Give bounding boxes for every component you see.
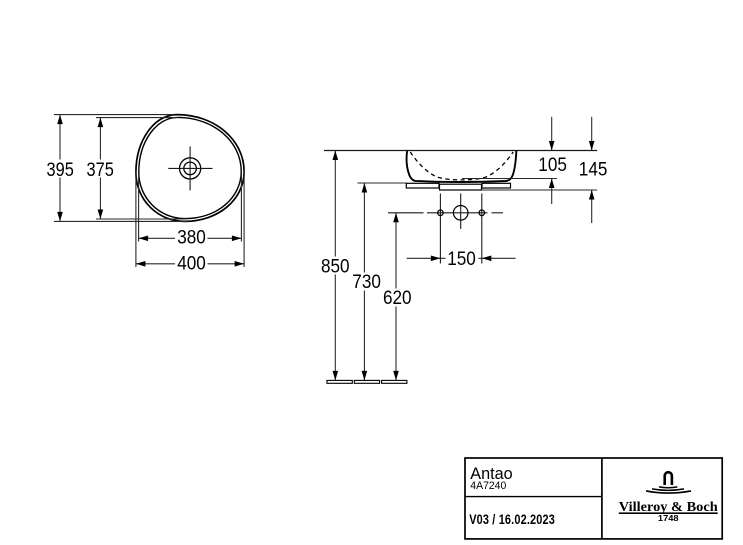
mounting plate left	[406, 183, 439, 188]
dim 730 dimension line	[363, 183, 365, 273]
dim 105 upper dimension line with down arrow	[551, 117, 553, 151]
title block outer frame	[465, 458, 722, 539]
logo bottom arc	[646, 491, 691, 493]
svg-text:400: 400	[177, 253, 206, 275]
dim 380 left extension line	[138, 174, 140, 242]
145-level line (plate bottom extension)	[482, 189, 598, 191]
730-level line	[358, 182, 408, 184]
dim 395 bottom extension line	[54, 220, 187, 222]
svg-text:620: 620	[383, 287, 412, 309]
holes horizontal centerline	[388, 212, 424, 214]
svg-text:4A7240: 4A7240	[470, 480, 506, 492]
drain outer circle	[180, 158, 201, 179]
mounting plate right	[482, 183, 511, 188]
basin bowl inner curve (dashed)	[410, 152, 513, 180]
dim 400 dimension line	[136, 263, 175, 265]
svg-text:145: 145	[579, 158, 608, 180]
svg-text:1748: 1748	[658, 514, 679, 523]
logo arch symbol	[665, 472, 672, 485]
floor bar 2	[354, 380, 379, 383]
title block vertical divider	[601, 458, 603, 539]
dim 850 dimension line	[334, 151, 336, 257]
title block horizontal divider	[465, 496, 602, 498]
dim 395 dimension line	[59, 115, 61, 160]
fixing hole axis line left	[439, 194, 441, 264]
dim 375 dimension line	[99, 118, 101, 160]
dim 395 top extension line	[54, 114, 174, 116]
floor bar 1	[327, 380, 352, 383]
fixing hole left	[438, 210, 444, 216]
logo middle arc	[652, 489, 684, 491]
svg-text:Villeroy & Boch: Villeroy & Boch	[619, 499, 718, 514]
logo bar under arch	[659, 486, 677, 489]
drain crosshair vertical	[189, 146, 191, 190]
drain axis line center	[460, 194, 462, 230]
drain inner circle	[184, 162, 197, 175]
dim 375 bottom extension line	[96, 218, 187, 220]
mounting plate center	[440, 184, 482, 190]
basin outer outline (top view)	[136, 115, 244, 222]
drain hole center	[453, 206, 468, 221]
basin profile outline	[407, 151, 517, 182]
fixing hole right	[479, 210, 485, 216]
dim 400 right extension line	[243, 170, 245, 267]
svg-text:150: 150	[447, 248, 476, 270]
svg-text:375: 375	[87, 159, 114, 181]
svg-text:V03 / 16.02.2023: V03 / 16.02.2023	[469, 511, 555, 527]
dim 105 lower dimension line with up arrow	[551, 179, 553, 205]
dim 380 right extension line	[240, 173, 242, 242]
svg-text:395: 395	[47, 159, 74, 181]
rim top line (850 level)	[324, 150, 597, 152]
fixing hole axis line right	[481, 194, 483, 264]
svg-text:730: 730	[352, 271, 381, 293]
drain crosshair horizontal	[168, 167, 212, 169]
dim 400 left extension line	[135, 171, 137, 267]
svg-text:380: 380	[177, 227, 206, 249]
dim 145 lower dimension line with up arrow	[591, 190, 593, 223]
svg-text:105: 105	[538, 154, 567, 176]
dim 145 upper dimension line with down arrow	[591, 117, 593, 151]
logo underline	[619, 512, 718, 514]
105-level line (basin underside extension)	[462, 178, 557, 180]
dim 150 dimension line	[407, 257, 446, 259]
dim 380 dimension line	[139, 237, 175, 239]
basin inner rim line (top view)	[139, 117, 241, 218]
floor bar 3	[382, 380, 407, 383]
dim 375 top extension line	[96, 117, 178, 119]
svg-text:850: 850	[321, 255, 350, 277]
dim 620 dimension line	[395, 213, 397, 289]
